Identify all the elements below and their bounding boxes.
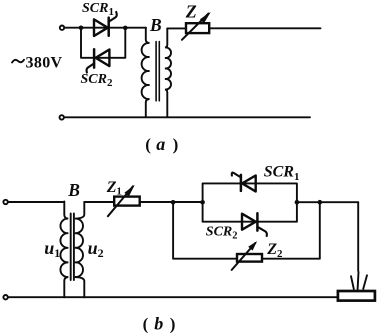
- transformer B (a) core: [156, 42, 159, 101]
- svg-text:SCR2: SCR2: [81, 72, 113, 89]
- node junction left: [171, 200, 176, 205]
- svg-text:SCR1: SCR1: [82, 1, 114, 18]
- svg-text:): ): [173, 135, 179, 154]
- node right junction: [123, 26, 128, 31]
- terminal b-top: [3, 200, 7, 204]
- impedance Z1 box: [114, 197, 140, 206]
- wire electrode drop: [357, 202, 359, 271]
- svg-text:u2: u2: [88, 238, 104, 260]
- svg-text:(: (: [145, 135, 151, 154]
- svg-text:Z1: Z1: [106, 179, 122, 198]
- wire parallel loop (a): [81, 28, 125, 58]
- label ~380V: [12, 60, 24, 63]
- transformer B (b) secondary winding u2: [75, 202, 85, 297]
- wire top (a): [64, 27, 145, 29]
- transformer B (a) primary winding: [142, 28, 150, 117]
- thyristor SCR1 (b): [232, 173, 256, 192]
- wire SCR parallel box (b): [203, 183, 297, 221]
- svg-text:B: B: [67, 180, 80, 200]
- impedance Z arrow (a): [182, 14, 209, 40]
- workpiece: [338, 291, 375, 301]
- wire top-left (b): [8, 201, 64, 203]
- impedance Z2 box: [237, 254, 262, 262]
- svg-text:Z2: Z2: [266, 241, 283, 260]
- impedance Z1 arrow: [108, 186, 133, 216]
- terminal b-bottom: [3, 295, 7, 299]
- node left junction: [79, 26, 84, 31]
- svg-text:(: (: [143, 314, 149, 333]
- wire top-right (a): [209, 27, 320, 29]
- terminal a-bottom: [60, 115, 64, 119]
- wire box-right to corner: [297, 201, 358, 203]
- wire bottom (a): [64, 116, 310, 118]
- wire Z2 branch left: [173, 202, 237, 258]
- thyristor SCR2 (a): [87, 49, 110, 72]
- wire secondary top to Z: [167, 27, 186, 29]
- wire u2 top to Z1: [84, 201, 114, 203]
- node junction box-left: [200, 200, 205, 205]
- transformer B (b) primary winding u1: [60, 202, 68, 298]
- svg-text:B: B: [149, 15, 162, 35]
- impedance Z box (a): [186, 23, 209, 33]
- transformer B (b) core: [71, 214, 74, 281]
- svg-text:SCR2: SCR2: [206, 224, 238, 241]
- transformer B (a) secondary winding: [165, 28, 171, 116]
- wire Z1 to SCR box: [140, 201, 203, 203]
- thyristor SCR2 (b): [242, 213, 267, 236]
- svg-text:380V: 380V: [26, 55, 63, 72]
- wire bottom (b): [8, 296, 338, 298]
- svg-text:SCR1: SCR1: [264, 163, 300, 182]
- impedance Z2 arrow: [232, 243, 256, 270]
- terminal a-top: [60, 26, 64, 30]
- caption (b): [143, 313, 176, 333]
- svg-text:Z: Z: [185, 2, 197, 22]
- wire Z2 branch right: [262, 202, 320, 259]
- node junction z2-right: [318, 200, 323, 205]
- svg-text:b: b: [154, 313, 163, 333]
- arc rays: [351, 272, 367, 289]
- caption (a): [145, 134, 178, 154]
- thyristor SCR1 (a): [94, 12, 117, 36]
- svg-text:): ): [170, 314, 176, 333]
- svg-text:u1: u1: [44, 238, 60, 260]
- svg-text:a: a: [156, 134, 165, 154]
- node junction box-right: [295, 200, 300, 205]
